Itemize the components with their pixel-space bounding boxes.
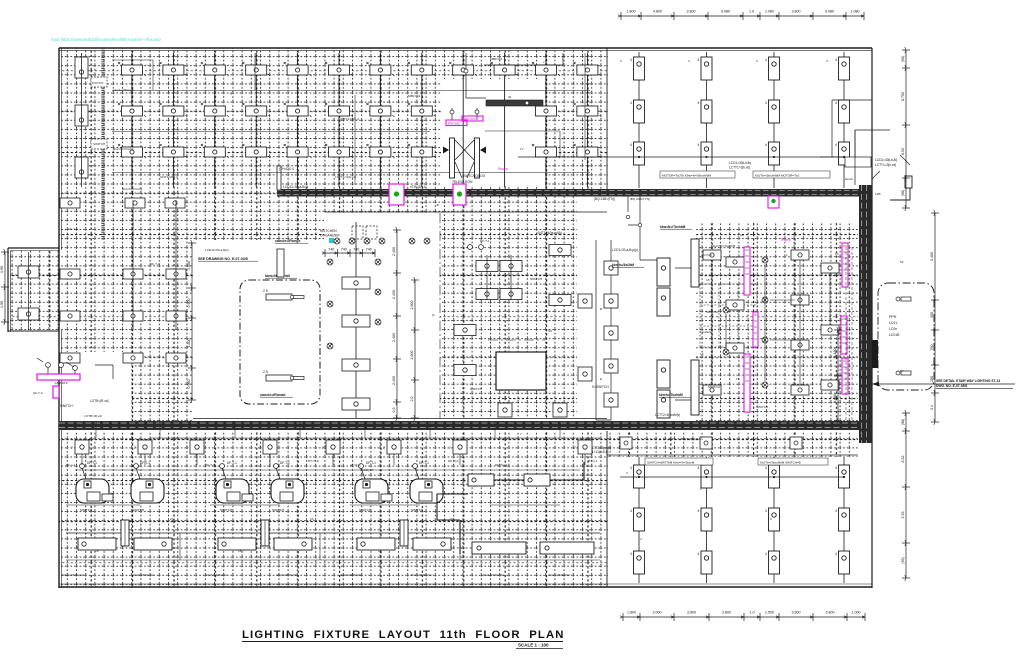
svg-text:13: 13 xyxy=(130,432,134,436)
svg-text:1.800: 1.800 xyxy=(627,10,636,14)
svg-text:4: 4 xyxy=(698,509,700,513)
svg-text:(95): (95) xyxy=(901,56,905,62)
dashed ceiling grid patch xyxy=(700,284,757,348)
svg-text:8.52: 8.52 xyxy=(901,456,905,463)
svg-text:18 8 18 8: 18 8 18 8 xyxy=(55,381,68,385)
svg-text:4.800: 4.800 xyxy=(653,10,662,14)
svg-text:KKITCHEN: KKITCHEN xyxy=(320,229,337,233)
riser hook top right xyxy=(890,176,912,200)
svg-text:xblxrlxl/3rfbxt3x/: xblxrlxl/3rfbxt3x/ xyxy=(340,573,362,577)
stairway arrowhead xyxy=(872,382,879,387)
ceiling slot fixture room bottom xyxy=(263,370,304,381)
svg-text:SWITCH: SWITCH xyxy=(80,508,92,512)
svg-text:3.800: 3.800 xyxy=(687,10,696,14)
PPH feeder symbols xyxy=(896,297,911,375)
svg-text:7: 7 xyxy=(322,446,324,450)
svg-text:3.460: 3.460 xyxy=(930,252,934,261)
PPH electrical room rounded outline xyxy=(878,283,934,390)
svg-text:DF-T-1: DF-T-1 xyxy=(480,239,490,243)
svg-text:2.400: 2.400 xyxy=(392,290,396,299)
svg-text:0.960: 0.960 xyxy=(187,380,191,389)
svg-text:xblxrlxl/3rfbxt3x/: xblxrlxl/3rfbxt3x/ xyxy=(205,573,227,577)
svg-text:3.800: 3.800 xyxy=(722,611,731,615)
dimension chain right lower xyxy=(902,410,910,581)
svg-text:LCTT2=3|bxxM|v|: LCTT2=3|bxxM|v| xyxy=(655,413,680,417)
svg-text:4.53: 4.53 xyxy=(901,512,905,519)
exit light box 2 with green lamp xyxy=(453,184,466,205)
corridor lower edge line xyxy=(607,454,858,456)
svg-text:4: 4 xyxy=(630,552,632,556)
dashed ties right-mid to wall xyxy=(846,247,852,420)
svg-text:AT=T-1|: AT=T-1| xyxy=(350,463,361,467)
svg-text:DF-T(x|: DF-T(x| xyxy=(448,459,459,463)
small plate left of pph labels xyxy=(845,157,871,167)
svg-text:4: 4 xyxy=(835,552,837,556)
wire drops from corridor to clusters xyxy=(82,454,585,465)
svg-text:LC0n: LC0n xyxy=(889,327,897,331)
partition bottom-right region left wall xyxy=(606,431,608,587)
branch wire top block row3 xyxy=(112,172,590,174)
svg-text:9.080: 9.080 xyxy=(721,10,730,14)
tall slot fixture above room xyxy=(277,249,284,277)
svg-text:DF-T-1: DF-T-1 xyxy=(227,461,237,465)
white stair hall cutout xyxy=(441,79,545,185)
svg-text:4: 4 xyxy=(835,143,837,147)
svg-text:xblxrlxl/3rfbxt3x/: xblxrlxl/3rfbxt3x/ xyxy=(62,573,84,577)
white switch alcove cutout xyxy=(60,352,132,428)
protrusion bottom edge xyxy=(8,330,59,332)
svg-text:4: 4 xyxy=(630,466,632,470)
svg-text:cancle=/Ronge: cancle=/Ronge xyxy=(113,88,134,92)
stepped feeder wire bottom right xyxy=(437,462,584,554)
svg-text:cancle=/Ronad: cancle=/Ronad xyxy=(260,393,285,397)
lighting fixture grid top-left block xyxy=(122,53,598,187)
svg-text:cancle=/Ronge: cancle=/Ronge xyxy=(275,239,300,243)
svg-text:kbreh=/3wJbM: kbreh=/3wJbM xyxy=(612,263,634,267)
svg-text:MBF=5|1: MBF=5|1 xyxy=(490,57,503,61)
svg-text:|O4T1=|R4,d: |O4T1=|R4,d xyxy=(160,175,178,179)
svg-text:Jb: Jb xyxy=(436,203,440,207)
outer border bottom inner xyxy=(59,583,872,585)
dimension chain room left xyxy=(188,240,196,403)
svg-text:15: 15 xyxy=(706,278,710,282)
svg-text:1.000: 1.000 xyxy=(852,611,861,615)
scale underline xyxy=(516,648,563,650)
svg-text:Y: Y xyxy=(230,92,232,96)
svg-text:LCTT1=3|b,vd|: LCTT1=3|b,vd| xyxy=(729,166,750,170)
thick vertical wall right xyxy=(859,185,872,443)
svg-text:xblxrlxl/3rfbxt3x/: xblxrlxl/3rfbxt3x/ xyxy=(132,573,154,577)
svg-text:kbw=N=/TbxhbM: kbw=N=/TbxhbM xyxy=(712,244,736,248)
svg-text:(98): (98) xyxy=(901,190,905,196)
row wire linking columns top-right xyxy=(518,156,844,158)
fixture corner ticks and tags top-left grid xyxy=(118,62,601,158)
svg-text:17: 17 xyxy=(520,147,524,151)
svg-text:1.95: 1.95 xyxy=(0,301,4,308)
thick corridor wall lower xyxy=(59,421,864,430)
svg-text:4: 4 xyxy=(835,101,837,105)
svg-text:DF-T-1: DF-T-1 xyxy=(280,461,290,465)
svg-text:4: 4 xyxy=(770,517,772,521)
svg-text:12B: 12B xyxy=(875,192,881,196)
unit cluster 2 xyxy=(216,461,312,550)
svg-text:LOTB=|R,vd|: LOTB=|R,vd| xyxy=(90,399,109,403)
hall dim chain A xyxy=(393,227,401,421)
outer border left xyxy=(58,48,60,588)
svg-text:1.0: 1.0 xyxy=(749,10,754,14)
svg-text:KKITCH: KKITCH xyxy=(92,81,103,85)
bottom-right section routing xyxy=(468,474,594,554)
svg-text:7: 7 xyxy=(71,446,73,450)
svg-text:4: 4 xyxy=(835,466,837,470)
svg-text:3.000: 3.000 xyxy=(653,611,662,615)
svg-text:1.95: 1.95 xyxy=(0,266,4,273)
riser label c underline xyxy=(612,266,644,268)
magenta label plate A xyxy=(446,120,467,126)
svg-text:DF-T-1: DF-T-1 xyxy=(419,461,429,465)
svg-text:xTH=|Dx,4: xTH=|Dx,4 xyxy=(410,185,426,189)
hatched left protrusion room xyxy=(10,250,59,330)
outer border left inner lower xyxy=(61,330,63,588)
riser label e underline xyxy=(659,396,691,398)
svg-text:4: 4 xyxy=(698,552,700,556)
riser label d underline xyxy=(660,228,692,230)
svg-text:DF-T(x-1: DF-T(x-1 xyxy=(495,463,508,467)
hall dim chain B xyxy=(411,277,419,421)
svg-text:52: 52 xyxy=(900,260,904,264)
svg-text:SWITCH: SWITCH xyxy=(411,508,423,512)
svg-text:740: 740 xyxy=(353,248,359,252)
svg-text:1.800: 1.800 xyxy=(187,339,191,348)
svg-text:2.400: 2.400 xyxy=(392,376,396,385)
svg-text:SWITCHOBOX: SWITCHOBOX xyxy=(462,174,486,178)
svg-text:1.0: 1.0 xyxy=(750,611,755,615)
svg-text:7: 7 xyxy=(390,432,392,436)
svg-text:SWITCH: SWITCH xyxy=(708,385,720,389)
svg-text:GF-7-1: GF-7-1 xyxy=(68,227,78,231)
wall nub at corridor start xyxy=(277,166,281,190)
svg-text:18: 18 xyxy=(95,549,99,553)
hatched ceiling zone top-left block xyxy=(59,48,608,192)
svg-text:23: 23 xyxy=(450,517,454,521)
svg-text:23: 23 xyxy=(170,517,174,521)
svg-text:LCD12=3|b,vd|/v: LCD12=3|b,vd|/v xyxy=(680,437,703,441)
hatched zone right-mid block xyxy=(696,222,858,428)
wire risers right-mid xyxy=(596,196,691,420)
dimension chain top xyxy=(618,12,864,20)
svg-text:SWITCH: SWITCH xyxy=(60,404,73,408)
svg-text:3.480: 3.480 xyxy=(833,394,837,403)
svg-text:1.080: 1.080 xyxy=(765,10,774,14)
svg-text:4: 4 xyxy=(630,143,632,147)
svg-text:SWITCH: SWITCH xyxy=(359,508,371,512)
svg-text:17: 17 xyxy=(432,145,436,149)
protrusion outer wall left inner xyxy=(10,251,12,333)
svg-text:SWITCH: SWITCH xyxy=(530,277,542,281)
svg-text:xblxrlxl/3rfbxt3x/: xblxrlxl/3rfbxt3x/ xyxy=(410,573,432,577)
svg-text:8.750: 8.750 xyxy=(901,92,905,101)
conference room rounded dash-dot outline xyxy=(240,280,320,404)
wire top right riser xyxy=(854,130,856,185)
svg-text:(BQ 24B=|T'b|): (BQ 24B=|T'b|) xyxy=(594,197,615,201)
svg-text:7: 7 xyxy=(260,432,262,436)
fixtures mid hatch block xyxy=(454,245,571,376)
fixtures in left protrusion room xyxy=(18,252,39,330)
svg-text:2.600: 2.600 xyxy=(410,301,414,310)
svg-text:18: 18 xyxy=(238,549,242,553)
svg-text:(98): (98) xyxy=(901,419,905,425)
svg-text:DF-T-3: DF-T-3 xyxy=(150,262,160,266)
svg-text:|X4T1=4(br,vd|A): |X4T1=4(br,vd|A) xyxy=(537,231,562,235)
svg-text:54: 54 xyxy=(900,369,904,373)
ceiling slot fixture room top xyxy=(263,289,304,300)
protrusion outer wall top xyxy=(8,247,59,249)
hatched zone bottom-left block xyxy=(59,431,608,588)
wire corridor mid a xyxy=(150,437,600,439)
svg-text:MBF=5|1: MBF=5|1 xyxy=(408,94,421,98)
svg-text:4: 4 xyxy=(630,101,632,105)
title underline xyxy=(242,641,563,643)
svg-text:4: 4 xyxy=(765,466,767,470)
junction dots on bottom row wire xyxy=(638,476,845,478)
svg-text:0.9: 0.9 xyxy=(392,408,396,413)
svg-text:GF-7-4: GF-7-4 xyxy=(33,391,43,395)
corridor centerline dashdot horizontal xyxy=(488,339,545,341)
svg-text:760: 760 xyxy=(930,345,934,351)
svg-text:7: 7 xyxy=(259,446,261,450)
svg-text:15: 15 xyxy=(736,377,740,381)
svg-text:SWITCH: SWITCH xyxy=(756,405,768,409)
column grid zipper line A lower xyxy=(101,192,104,240)
svg-text:7: 7 xyxy=(134,446,136,450)
svg-text:LCD1=30,aJb,p(p): LCD1=30,aJb,p(p) xyxy=(612,248,638,252)
svg-text:LCD11=50,aJb|u|: LCD11=50,aJb|u| xyxy=(205,248,229,252)
bottom strip label row xyxy=(62,573,570,577)
svg-text:4: 4 xyxy=(835,509,837,513)
svg-text:kbreh=/TbxhbM: kbreh=/TbxhbM xyxy=(659,393,683,397)
svg-text:RT=|-1: RT=|-1 xyxy=(588,459,598,463)
svg-text:xblxrlxl/3rfbxt3x/: xblxrlxl/3rfbxt3x/ xyxy=(276,573,298,577)
scattered circuit micro-labels xyxy=(66,57,904,553)
dimension chain right upper xyxy=(902,47,910,211)
svg-text:LCD1=30|LbJb|: LCD1=30|LbJb| xyxy=(729,161,751,165)
svg-text:LCTT1=3|b,vd|: LCTT1=3|b,vd| xyxy=(875,163,896,167)
switch alcove symbols xyxy=(37,358,113,379)
kitchen organizer dashed boxes xyxy=(352,226,377,239)
thick corridor wall upper xyxy=(277,189,862,197)
svg-text:kbw=N=/TbxhbM: kbw=N=/TbxhbM xyxy=(660,225,686,229)
circuit label plate top-right 2 xyxy=(753,171,830,178)
svg-text:|BQ 24B=|T'b|): |BQ 24B=|T'b|) xyxy=(630,197,650,201)
svg-text:DF-T-1: DF-T-1 xyxy=(87,461,97,465)
svg-text:SWITCH: SWITCH xyxy=(132,508,144,512)
circuit label plate bottom-right 2 xyxy=(758,458,828,465)
outer border left inner xyxy=(61,48,63,250)
small boxes in lower corridor strip xyxy=(620,437,802,449)
service shaft boxes column xyxy=(604,240,618,420)
svg-text:7: 7 xyxy=(520,432,522,436)
svg-text:2.5: 2.5 xyxy=(263,370,268,374)
svg-text:Rwvrp: Rwvrp xyxy=(498,167,508,171)
pendant fixture columns top-right region xyxy=(630,52,850,188)
svg-text:1.080: 1.080 xyxy=(851,10,860,14)
long branch wire bottom xyxy=(66,532,600,534)
hatched zone above conference room xyxy=(193,192,324,240)
svg-text:2.600: 2.600 xyxy=(410,351,414,360)
hall bottom thin line xyxy=(193,418,607,420)
svg-text:13: 13 xyxy=(835,252,839,256)
unit cluster 1 xyxy=(76,461,172,550)
outer border bottom xyxy=(59,586,872,588)
magenta switch bar xyxy=(37,374,80,380)
svg-text:LIGHTING FIXTURE LAYOUT 11t: LIGHTING FIXTURE LAYOUT 11th FLOOR PLAN xyxy=(242,629,565,641)
svg-text:SWITCH: SWITCH xyxy=(220,508,232,512)
extra wires right-mid block xyxy=(703,255,830,385)
svg-text:2.400: 2.400 xyxy=(392,247,396,256)
fixtures left strip xyxy=(60,198,186,363)
outer border top inner xyxy=(59,50,872,52)
hall small dim chain xyxy=(322,249,375,257)
svg-text:4: 4 xyxy=(765,552,767,556)
partition top-right region left wall xyxy=(606,48,608,192)
white room small cutout xyxy=(496,352,546,390)
fixture box row under corridor xyxy=(71,440,592,454)
svg-text:MOTOR=TbJTb Kbw=N=/3bxxMbM: MOTOR=TbJTb Kbw=N=/3bxxMbM xyxy=(662,174,711,178)
wall washer fixtures left column top block xyxy=(75,53,88,187)
svg-text:18: 18 xyxy=(378,549,382,553)
svg-text:RT=T-1|: RT=T-1| xyxy=(308,459,319,463)
svg-text:4: 4 xyxy=(630,58,632,62)
svg-text:kwrcb: kwrcb xyxy=(845,177,853,181)
pendant fixture columns bottom-right region xyxy=(630,457,850,583)
svg-text:SWITCH: SWITCH xyxy=(93,142,105,146)
svg-text:3.800: 3.800 xyxy=(826,611,835,615)
svg-text:SWITCH: SWITCH xyxy=(272,508,284,512)
svg-text:350: 350 xyxy=(930,312,934,318)
svg-text:3.800: 3.800 xyxy=(792,10,801,14)
svg-text:LCD1=30|LbJb|: LCD1=30|LbJb| xyxy=(875,158,897,162)
room note underline xyxy=(275,242,308,244)
svg-text:4: 4 xyxy=(765,509,767,513)
svg-text:|b: |b xyxy=(432,313,435,317)
stairway note arrow xyxy=(872,383,1015,385)
svg-text:DF-T-1: DF-T-1 xyxy=(366,461,376,465)
svg-text:7: 7 xyxy=(383,446,385,450)
protrusion outer wall top inner xyxy=(11,250,60,252)
svg-text:4: 4 xyxy=(630,509,632,513)
svg-text:mail: hltps://www-build2@examp: mail: hltps://www-build2@example/url/aln… xyxy=(51,37,161,42)
svg-text:E: E xyxy=(600,377,602,381)
svg-text:13: 13 xyxy=(700,352,704,356)
svg-text:SEE DRAWING NO. E-07-03/5: SEE DRAWING NO. E-07-03/5 xyxy=(198,257,248,261)
dimension chain mid right short xyxy=(834,327,842,424)
room note bottom underline xyxy=(260,396,293,398)
branch wire top block row1 xyxy=(112,90,590,92)
svg-text:7ELEVATION: 7ELEVATION xyxy=(452,180,473,184)
svg-text:S=SWITCH: S=SWITCH xyxy=(592,385,609,389)
magenta switch bar small xyxy=(53,386,59,398)
svg-text:23: 23 xyxy=(310,517,314,521)
svg-text:Rw=wrp: Rw=wrp xyxy=(448,122,460,126)
svg-text:1.500: 1.500 xyxy=(187,261,191,270)
stairway underline xyxy=(936,388,1013,390)
svg-text:(95): (95) xyxy=(901,557,905,563)
svg-text:DWG. NO. E-07-03/8: DWG. NO. E-07-03/8 xyxy=(936,384,967,388)
hall outlet symbols row xyxy=(327,238,430,349)
wire bundle top right corner xyxy=(820,100,910,179)
room see-drawing underline xyxy=(198,260,258,262)
svg-text:4: 4 xyxy=(698,466,700,470)
outer border top xyxy=(59,47,872,49)
circuit label plate bottom-right 1 xyxy=(645,458,713,465)
unit cluster 3 xyxy=(355,461,451,550)
svg-text:DF-T-3: DF-T-3 xyxy=(205,463,215,467)
svg-text:4: 4 xyxy=(835,58,837,62)
corridor top edge line xyxy=(325,211,607,213)
svg-text:4: 4 xyxy=(620,59,622,63)
dimension chain protrusion xyxy=(1,249,9,325)
svg-text:4: 4 xyxy=(756,59,758,63)
svg-text:4: 4 xyxy=(698,143,700,147)
svg-text:kbw=N=/Corbil: kbw=N=/Corbil xyxy=(122,187,143,191)
svg-text:4: 4 xyxy=(698,101,700,105)
svg-text:LC01B: LC01B xyxy=(889,333,900,337)
magenta label plate B xyxy=(462,116,483,121)
svg-text:4: 4 xyxy=(765,143,767,147)
svg-text:LOTB=|R,vd|: LOTB=|R,vd| xyxy=(84,414,102,418)
svg-text:3.800: 3.800 xyxy=(687,611,696,615)
hatched strip below corridor right xyxy=(608,431,858,457)
elevator shaft beam top xyxy=(486,100,543,106)
hatched zone mid strip right of hall xyxy=(440,213,577,418)
hall fixture chain xyxy=(342,222,370,418)
svg-text:Rwvrp: Rwvrp xyxy=(781,238,791,242)
svg-text:3.800: 3.800 xyxy=(792,611,801,615)
svg-text:DF-1-1: DF-1-1 xyxy=(66,463,76,467)
svg-text:B: B xyxy=(600,307,602,311)
svg-text:4: 4 xyxy=(640,537,642,541)
svg-text:xblxrlxl/3rfbxt3x/: xblxrlxl/3rfbxt3x/ xyxy=(548,573,570,577)
fixtures right-mid block xyxy=(703,250,839,395)
feeder bus black block xyxy=(872,340,878,368)
svg-text:Rw=wrp: Rw=wrp xyxy=(464,117,476,121)
svg-text:0.900: 0.900 xyxy=(187,299,191,308)
svg-text:LCTT1=3|br,vd|: LCTT1=3|br,vd| xyxy=(335,175,356,179)
svg-text:740: 740 xyxy=(366,248,372,252)
svg-text:3: 3 xyxy=(626,471,628,475)
svg-text:LC01: LC01 xyxy=(889,321,897,325)
teal marker kitchen xyxy=(329,238,334,243)
svg-text:SWITCH=BATTbM Kbw=N=/3bxxM: SWITCH=BATTbM Kbw=N=/3bxxM xyxy=(647,461,695,465)
hatched zone left strip xyxy=(59,192,193,428)
svg-text:S: S xyxy=(330,342,332,346)
hatched zone above hall xyxy=(324,192,607,213)
svg-text:SWITCH: SWITCH xyxy=(470,387,482,391)
branch wire top block row2 xyxy=(112,131,430,133)
protrusion outer wall left xyxy=(7,248,9,332)
svg-text:ORGANIZER: ORGANIZER xyxy=(320,234,340,238)
svg-text:4: 4 xyxy=(698,58,700,62)
svg-text:KbJTb=/3bxxMbM SWITCH=B: KbJTb=/3bxxMbM SWITCH=B xyxy=(760,461,801,465)
svg-text:740: 740 xyxy=(341,248,347,252)
svg-text:KbJTb=/3bxxMbM MOTOR=TbJ: KbJTb=/3bxxMbM MOTOR=TbJ xyxy=(755,174,800,178)
column grid zipper line A xyxy=(101,48,104,192)
circuit label plate top-right 1 xyxy=(660,171,735,178)
svg-text:LCD11=50,aJb|u|: LCD11=50,aJb|u| xyxy=(283,185,309,189)
svg-text:xblxrlxl/3rfbxt3x/: xblxrlxl/3rfbxt3x/ xyxy=(482,573,504,577)
svg-text:kbw=N=/Corbil: kbw=N=/Corbil xyxy=(113,147,134,151)
dimension chain right mid xyxy=(931,210,939,425)
